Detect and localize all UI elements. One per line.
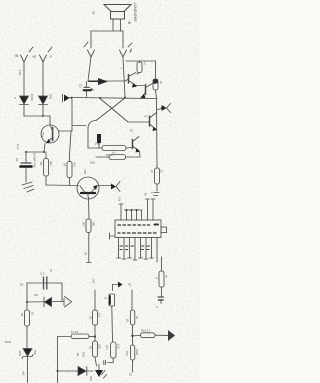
- diode D1: [20, 96, 29, 105]
- svg-text:4K7: 4K7: [82, 222, 86, 227]
- node B rail: [26, 301, 28, 303]
- resistor R6: [67, 155, 72, 185]
- svg-text:G: G: [104, 297, 108, 299]
- svg-text:1K0: 1K0: [73, 162, 77, 167]
- transistor TR3: [125, 73, 137, 88]
- svg-text:LOUDSPKR: LOUDSPKR: [133, 3, 137, 22]
- wire R11 to TR6: [126, 147, 132, 150]
- svg-text:R5: R5: [39, 162, 43, 166]
- wire diag B: [96, 98, 125, 121]
- wire right drop: [122, 31, 124, 48]
- svg-text:R: R: [155, 277, 159, 279]
- svg-text:2F: 2F: [128, 283, 132, 287]
- svg-text:11K: 11K: [117, 344, 121, 349]
- svg-text:1W: 1W: [118, 197, 122, 202]
- svg-text:1R0: 1R0: [49, 94, 53, 100]
- svg-text:+E: +E: [32, 55, 37, 59]
- transistor TR4: [141, 84, 156, 99]
- arrow to pin: [113, 282, 123, 291]
- svg-text:PLB: PLB: [5, 340, 11, 344]
- svg-text:R6: R6: [63, 163, 67, 167]
- transistor TR1: [41, 116, 59, 152]
- wire hook branch: [73, 125, 87, 127]
- svg-text:5V6: 5V6: [33, 350, 37, 355]
- svg-text:zv: zv: [20, 283, 24, 287]
- connector J1: [84, 42, 95, 57]
- svg-text:≈2: ≈2: [112, 151, 116, 155]
- wire TR1 base: [59, 130, 72, 132]
- resistor R8: [86, 219, 91, 262]
- wire diode bus: [24, 115, 50, 117]
- svg-text:3K3: 3K3: [49, 161, 53, 166]
- svg-text:100R: 100R: [30, 94, 34, 101]
- capacitor C10: [109, 294, 115, 342]
- wire speaker top rail: [91, 30, 123, 32]
- wire right bottom column: [131, 290, 133, 310]
- connector J3: [21, 47, 34, 62]
- svg-text:C2: C2: [79, 84, 83, 88]
- resistor R18: [133, 333, 169, 338]
- connector J4: [40, 47, 53, 62]
- resistor R11: [102, 146, 126, 151]
- wire TR3 emitter: [136, 85, 144, 87]
- resistor R22: [93, 341, 98, 366]
- svg-text:10a: 10a: [90, 161, 95, 165]
- capacitor C2: [84, 82, 94, 97]
- IC bottom pins: [119, 238, 158, 263]
- arrow wiper: [89, 78, 108, 85]
- wire mid column: [88, 57, 91, 81]
- svg-text:R10 12: R10 12: [141, 329, 150, 333]
- resistor R5: [44, 152, 49, 185]
- svg-text:1K: 1K: [31, 312, 35, 315]
- diode D2: [39, 96, 48, 105]
- connector plug right: [157, 104, 171, 113]
- svg-text:2%2: 2%2: [95, 142, 101, 146]
- arrow out bottom: [168, 330, 175, 341]
- svg-text:B+: B+: [144, 193, 148, 197]
- svg-text:C1: C1: [15, 158, 19, 162]
- transistor TR2: [77, 177, 112, 199]
- svg-text:1K5: 1K5: [18, 70, 22, 76]
- IC U1: [115, 220, 161, 238]
- wire left mid column: [94, 290, 96, 310]
- node rail b: [99, 97, 101, 99]
- IC left pin: [110, 233, 116, 239]
- svg-text:TR1: TR1: [41, 132, 45, 137]
- svg-text:4001: 4001: [82, 352, 85, 358]
- ground G2: [95, 364, 107, 378]
- wire signal rail mid: [69, 98, 157, 99]
- wire bottom left column: [57, 337, 59, 383]
- svg-text:2W: 2W: [92, 279, 96, 284]
- resistor R20: [159, 271, 164, 296]
- wire feed column: [71, 99, 73, 131]
- capacitor C3: [97, 134, 101, 148]
- node bottom rail: [57, 370, 59, 372]
- wire emitter rail: [46, 184, 79, 187]
- svg-text:32: 32: [92, 11, 96, 15]
- svg-text:+B: +B: [127, 20, 131, 24]
- connector J2: [120, 43, 133, 57]
- node emitter: [43, 151, 45, 153]
- wire base rail TR3: [88, 80, 125, 82]
- capacitor C12: [158, 297, 164, 304]
- wire C1 node rail: [26, 151, 44, 153]
- resistor R9: [155, 168, 160, 191]
- resistor R19b: [130, 345, 134, 372]
- zener ZD1: [22, 349, 33, 383]
- svg-text:C.3: C.3: [40, 272, 45, 276]
- wire long right column: [156, 99, 159, 168]
- node rail c: [124, 97, 126, 99]
- wire D1 down: [23, 105, 25, 117]
- resistor R14: [58, 334, 96, 339]
- resistor R12: [96, 155, 140, 160]
- node C1: [25, 151, 27, 153]
- wire diode rail: [27, 301, 63, 304]
- svg-text:F+d: F+d: [16, 144, 20, 150]
- IC top pin 1: [119, 204, 123, 220]
- IC bottom pin ticks: [117, 258, 154, 260]
- capacitor C8: [44, 277, 47, 289]
- svg-text:R2: R2: [126, 319, 130, 323]
- svg-text:100K: 100K: [135, 349, 139, 355]
- wire top bias rail: [126, 60, 156, 62]
- ground G1: [22, 182, 34, 192]
- svg-text:R9: R9: [20, 313, 24, 317]
- svg-text:1K0: 1K0: [92, 222, 96, 227]
- connector plug input: [63, 94, 70, 102]
- svg-text:R50: R50: [89, 376, 93, 381]
- transistor TR6: [133, 137, 141, 158]
- svg-text:ZD1: ZD1: [18, 351, 22, 356]
- resistor R17: [104, 342, 116, 365]
- wire hook drop: [87, 128, 89, 149]
- node rail a: [71, 97, 73, 99]
- svg-text:F: F: [50, 55, 52, 59]
- wire C8 drop: [61, 283, 63, 302]
- connector plug TR2 out: [111, 182, 120, 192]
- wire bottom rail: [58, 370, 94, 372]
- svg-text:F: F: [150, 192, 154, 194]
- speaker LS1: [104, 5, 131, 32]
- IC right tab: [161, 227, 167, 233]
- wire TR2 base long: [88, 197, 91, 219]
- svg-text:TR2: TR2: [83, 169, 87, 175]
- wire diag A: [100, 99, 128, 123]
- wire column to D2: [42, 62, 44, 96]
- IC top pin 13: [146, 199, 150, 220]
- wire pin8 column: [161, 257, 163, 271]
- capacitor C1: [21, 152, 32, 182]
- pin marks: [154, 193, 160, 196]
- svg-text:7K: 7K: [84, 252, 88, 256]
- wire right column upper: [123, 57, 125, 98]
- diode D7: [78, 367, 87, 376]
- svg-text:R1: R1: [89, 346, 93, 350]
- wire to R11: [88, 147, 102, 149]
- IC top bus: [125, 209, 143, 220]
- resistor R21: [93, 310, 98, 341]
- IC pin value labels: [120, 246, 150, 250]
- svg-text:R2: R2: [89, 316, 93, 320]
- node diode bus: [42, 115, 44, 117]
- node R14 join: [94, 335, 96, 337]
- wire right column drop: [155, 61, 157, 79]
- arrow out right: [64, 297, 72, 308]
- resistor R16: [130, 310, 134, 345]
- svg-text:10: 10: [129, 373, 133, 377]
- svg-text:R10: R10: [125, 351, 129, 356]
- svg-text:100MF 25V: 100MF 25V: [33, 153, 37, 168]
- IC top pin 14: [151, 199, 155, 220]
- svg-text:C: C: [156, 305, 158, 309]
- transistor TR5: [128, 113, 157, 132]
- svg-text:12 TK: 12 TK: [71, 330, 79, 334]
- resistor R7: [137, 61, 142, 74]
- svg-text:22K: 22K: [98, 344, 102, 349]
- wire left drop: [90, 31, 92, 48]
- wire D2 down: [42, 105, 44, 117]
- svg-text:zv0: zv0: [22, 371, 26, 376]
- node R18: [131, 335, 133, 337]
- wire hook: [88, 121, 96, 128]
- svg-text:3%: 3%: [34, 293, 39, 297]
- IC pin text row top: [118, 224, 158, 227]
- pin tick: [87, 262, 92, 264]
- resistor R19: [25, 302, 30, 348]
- wire column to D1: [23, 62, 25, 96]
- IC pin text row bottom: [118, 232, 156, 234]
- diode D6: [44, 297, 52, 307]
- wire B rail corner: [27, 283, 62, 302]
- svg-text:R17: R17: [105, 345, 109, 350]
- resistor R13: [153, 79, 158, 99]
